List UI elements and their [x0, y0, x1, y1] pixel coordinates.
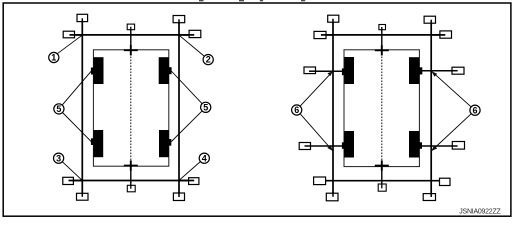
svg-text:4: 4: [202, 153, 207, 163]
tag side top-left: [314, 31, 333, 38]
tag center top: [379, 25, 386, 30]
svg-text:1: 1: [51, 53, 56, 63]
tag side top-right: [179, 30, 201, 37]
callout 2: [203, 55, 213, 65]
callout 5 right: [201, 102, 211, 112]
top center cross: [375, 45, 389, 55]
tag side bottom-left: [63, 177, 83, 184]
tag side top-right: [431, 31, 451, 38]
bottom center cross: [124, 160, 138, 170]
tag side bottom-right: [179, 178, 199, 185]
top cross member line: [70, 34, 195, 36]
cropped caption fragments above frame: [199, 0, 305, 1]
tag rail bottom left: [77, 193, 89, 200]
leader 6 right upper with arrow: [431, 71, 471, 107]
leader to 4: [179, 162, 200, 181]
leaders to 5 left: [62, 71, 91, 141]
tag rail top right: [424, 16, 435, 23]
tag rail top left: [77, 14, 88, 21]
center stub bottom: [381, 160, 383, 188]
center stub bottom: [130, 160, 132, 188]
mid measure line upper-left: [309, 70, 344, 72]
svg-text:2: 2: [206, 55, 211, 65]
leader to 1: [57, 35, 82, 53]
left rail: [332, 19, 334, 198]
center dotted line: [381, 57, 383, 161]
bottom cross member line: [69, 180, 195, 182]
block rear-right: [159, 130, 171, 157]
mid tag line stubs into tags: [305, 71, 458, 146]
mid measure line lower-right: [420, 145, 458, 147]
top cross member line: [321, 34, 446, 36]
block front-left: [342, 57, 354, 84]
tag side top-left: [63, 31, 82, 38]
tag rail bottom left: [326, 193, 338, 201]
svg-text:5: 5: [56, 104, 61, 114]
center dotted line: [130, 57, 132, 161]
block rear-left: [91, 130, 103, 157]
tag center top: [127, 24, 134, 30]
right rail: [430, 19, 432, 198]
callout 5 left: [54, 104, 64, 114]
leaders to 5 right: [171, 71, 202, 142]
bottom cross member line: [320, 180, 445, 182]
block front-right: [159, 57, 172, 84]
center stub top: [381, 27, 383, 55]
rail stubs into tags: [333, 19, 431, 197]
leader to 3: [62, 162, 82, 181]
tag rail bottom right: [423, 194, 435, 201]
tag mid upper-right: [452, 67, 464, 74]
leader 6 left upper with arrow: [300, 71, 333, 106]
svg-text:6: 6: [294, 105, 299, 115]
leader to 2: [179, 35, 204, 56]
mid measure line upper-right: [420, 70, 458, 72]
tag mid lower-left: [299, 143, 310, 150]
tag rail top left: [328, 15, 339, 22]
callout 6 left: [292, 105, 302, 115]
top center cross: [124, 45, 138, 55]
left rail: [81, 19, 83, 198]
inner body rectangle: [93, 50, 168, 166]
tag side bottom-right: [440, 178, 451, 185]
mid measure line lower-left: [305, 145, 345, 147]
callout 1: [49, 52, 59, 62]
rail stubs into tags: [82, 18, 179, 197]
leader 6 left lower with arrow: [301, 114, 333, 151]
svg-text:JSNIA0922ZZ: JSNIA0922ZZ: [459, 209, 501, 216]
tag center bottom: [378, 184, 386, 191]
tag rail top right: [173, 16, 185, 23]
callout 3: [54, 153, 64, 163]
callout 4: [199, 153, 209, 163]
svg-text:6: 6: [472, 105, 477, 115]
callout 6 right: [470, 105, 480, 115]
block rear-right: [409, 131, 422, 158]
right rail: [178, 19, 180, 198]
block front-left: [91, 57, 104, 84]
svg-text:5: 5: [203, 102, 208, 112]
tag side bottom-left: [314, 177, 326, 185]
inner body rectangle: [344, 50, 419, 167]
bottom center cross: [375, 160, 389, 170]
block front-right: [409, 57, 422, 84]
tag mid upper-left: [304, 67, 316, 74]
svg-text:3: 3: [56, 153, 61, 163]
leader 6 right lower with arrow: [431, 114, 471, 151]
tag rail bottom right: [173, 193, 184, 201]
tag center bottom: [127, 185, 135, 192]
block rear-left: [342, 131, 354, 158]
center stub top: [130, 27, 132, 55]
tag mid lower-right: [452, 142, 464, 150]
